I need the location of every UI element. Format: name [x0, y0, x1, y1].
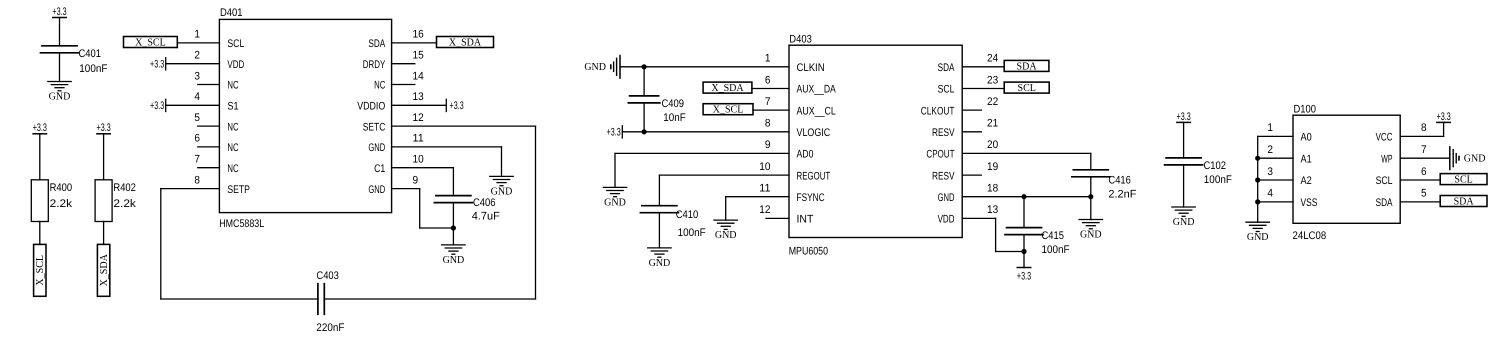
svg-text:3: 3 — [194, 70, 200, 82]
svg-text:+3.3: +3.3 — [450, 100, 464, 112]
svg-text:12: 12 — [413, 112, 424, 124]
svg-text:7: 7 — [1421, 144, 1427, 156]
svg-text:11: 11 — [759, 183, 770, 195]
svg-text:SCL: SCL — [1018, 83, 1036, 94]
svg-text:C401: C401 — [79, 48, 102, 60]
svg-text:6: 6 — [194, 133, 200, 145]
svg-text:5: 5 — [194, 112, 200, 124]
svg-text:16: 16 — [413, 29, 424, 41]
svg-text:SDA: SDA — [1376, 197, 1393, 209]
svg-text:1: 1 — [765, 53, 771, 65]
svg-text:8: 8 — [765, 118, 771, 130]
svg-text:WP: WP — [1381, 153, 1392, 165]
svg-text:GND: GND — [649, 258, 671, 269]
svg-text:VDD: VDD — [227, 59, 244, 71]
svg-text:NC: NC — [227, 80, 238, 92]
svg-text:+3.3: +3.3 — [52, 6, 66, 18]
svg-text:REGOUT: REGOUT — [797, 170, 831, 182]
svg-text:D403: D403 — [789, 33, 812, 45]
svg-text:3: 3 — [1267, 166, 1273, 178]
svg-text:13: 13 — [987, 204, 998, 216]
svg-text:X_SDA: X_SDA — [449, 37, 482, 48]
svg-text:RESV: RESV — [932, 127, 955, 139]
svg-text:5: 5 — [1421, 188, 1427, 200]
svg-text:GND: GND — [1247, 232, 1269, 243]
svg-text:23: 23 — [987, 74, 998, 86]
svg-text:7: 7 — [765, 96, 771, 108]
svg-text:GND: GND — [938, 192, 955, 204]
svg-text:11: 11 — [413, 133, 424, 145]
svg-text:NC: NC — [227, 142, 238, 154]
svg-text:SCL: SCL — [938, 84, 955, 96]
svg-text:AD0: AD0 — [797, 149, 814, 161]
svg-text:X_SDA: X_SDA — [711, 83, 744, 94]
svg-text:NC: NC — [374, 80, 385, 92]
svg-text:19: 19 — [987, 161, 998, 173]
svg-text:GND: GND — [604, 197, 626, 208]
svg-text:22: 22 — [987, 96, 998, 108]
svg-text:8: 8 — [194, 174, 200, 186]
svg-text:GND: GND — [1173, 217, 1195, 228]
svg-text:VCC: VCC — [1376, 132, 1393, 144]
svg-text:4: 4 — [1267, 188, 1273, 200]
svg-text:21: 21 — [987, 118, 998, 130]
svg-text:+3.3: +3.3 — [1177, 111, 1191, 123]
svg-text:VDD: VDD — [938, 214, 955, 226]
svg-text:GND: GND — [491, 186, 513, 197]
svg-text:MPU6050: MPU6050 — [789, 245, 828, 257]
svg-text:GND: GND — [368, 142, 385, 154]
svg-text:C410: C410 — [676, 209, 699, 221]
svg-text:SDA: SDA — [938, 62, 955, 74]
svg-text:SCL: SCL — [1376, 175, 1393, 187]
svg-text:C403: C403 — [316, 270, 339, 282]
svg-text:C416: C416 — [1108, 174, 1131, 186]
svg-text:SDA: SDA — [368, 38, 385, 50]
svg-text:VLOGIC: VLOGIC — [797, 127, 831, 139]
svg-text:24LC08: 24LC08 — [1293, 230, 1327, 242]
svg-text:X_SCL: X_SCL — [135, 37, 166, 48]
svg-text:+3.3: +3.3 — [1017, 271, 1031, 283]
svg-text:C415: C415 — [1042, 230, 1065, 242]
svg-text:GND: GND — [49, 91, 71, 102]
svg-text:GND: GND — [1080, 229, 1102, 240]
svg-text:NC: NC — [227, 121, 238, 133]
svg-text:220nF: 220nF — [316, 322, 344, 334]
svg-text:DRDY: DRDY — [363, 59, 386, 71]
svg-text:A1: A1 — [1301, 153, 1312, 165]
svg-text:14: 14 — [413, 70, 424, 82]
svg-text:A2: A2 — [1301, 175, 1312, 187]
svg-text:1: 1 — [1267, 122, 1273, 134]
svg-text:AUX__CL: AUX__CL — [797, 105, 836, 117]
svg-text:4: 4 — [194, 91, 200, 103]
svg-text:10: 10 — [759, 161, 770, 173]
svg-text:X_SCL: X_SCL — [713, 105, 744, 116]
svg-text:SETP: SETP — [227, 184, 250, 196]
svg-text:GND: GND — [584, 62, 606, 73]
svg-text:GND: GND — [715, 230, 737, 241]
svg-text:FSYNC: FSYNC — [797, 192, 825, 204]
svg-text:X_SCL: X_SCL — [35, 255, 46, 286]
svg-text:+3.3: +3.3 — [97, 122, 111, 134]
svg-text:13: 13 — [413, 91, 424, 103]
svg-text:15: 15 — [413, 50, 424, 62]
svg-text:CLKOUT: CLKOUT — [921, 105, 955, 117]
svg-text:SDA: SDA — [1017, 61, 1038, 72]
svg-text:C102: C102 — [1204, 160, 1227, 172]
svg-text:C1: C1 — [374, 163, 385, 175]
svg-text:18: 18 — [987, 183, 998, 195]
svg-text:10: 10 — [413, 154, 424, 166]
svg-text:CLKIN: CLKIN — [797, 62, 825, 74]
svg-text:7: 7 — [194, 154, 200, 166]
svg-text:GND: GND — [1464, 154, 1486, 165]
svg-text:C409: C409 — [662, 98, 685, 110]
svg-text:VSS: VSS — [1301, 197, 1318, 209]
svg-text:+3.3: +3.3 — [150, 100, 164, 112]
svg-text:GND: GND — [443, 255, 465, 266]
svg-text:100nF: 100nF — [678, 227, 706, 239]
svg-text:100nF: 100nF — [1042, 244, 1070, 256]
svg-text:R400: R400 — [50, 182, 73, 194]
svg-text:8: 8 — [1421, 122, 1427, 134]
svg-text:+3.3: +3.3 — [607, 126, 621, 138]
svg-text:2.2k: 2.2k — [50, 198, 73, 210]
svg-text:SCL: SCL — [227, 38, 244, 50]
svg-text:100nF: 100nF — [1204, 174, 1232, 186]
svg-text:A0: A0 — [1301, 132, 1312, 144]
svg-text:VDDIO: VDDIO — [357, 101, 385, 113]
svg-text:RESV: RESV — [932, 170, 955, 182]
svg-text:GND: GND — [368, 184, 385, 196]
svg-text:SETC: SETC — [363, 121, 386, 133]
svg-text:X_SDA: X_SDA — [99, 253, 110, 286]
svg-text:D401: D401 — [220, 7, 243, 19]
svg-text:S1: S1 — [227, 101, 238, 113]
svg-text:C406: C406 — [473, 197, 496, 209]
svg-text:4.7uF: 4.7uF — [472, 211, 500, 223]
svg-text:R402: R402 — [113, 182, 135, 194]
svg-text:9: 9 — [413, 174, 419, 186]
svg-text:2.2nF: 2.2nF — [1108, 188, 1136, 200]
svg-text:INT: INT — [797, 214, 814, 226]
svg-text:+3.3: +3.3 — [33, 122, 47, 134]
svg-text:+3.3: +3.3 — [1437, 111, 1451, 123]
svg-text:24: 24 — [987, 53, 998, 65]
svg-text:+3.3: +3.3 — [150, 58, 164, 70]
svg-text:HMC5883L: HMC5883L — [219, 218, 264, 230]
svg-text:20: 20 — [987, 139, 998, 151]
svg-text:CPOUT: CPOUT — [926, 149, 954, 161]
svg-text:6: 6 — [1421, 166, 1427, 178]
svg-text:2: 2 — [1267, 144, 1273, 156]
svg-text:D100: D100 — [1294, 104, 1317, 116]
svg-text:6: 6 — [765, 74, 771, 86]
svg-text:NC: NC — [227, 163, 238, 175]
svg-text:SDA: SDA — [1454, 196, 1475, 207]
svg-text:9: 9 — [765, 139, 771, 151]
svg-text:AUX__DA: AUX__DA — [797, 84, 837, 96]
svg-text:1: 1 — [194, 29, 200, 41]
svg-text:10nF: 10nF — [663, 112, 686, 124]
svg-text:2: 2 — [194, 50, 200, 62]
svg-text:12: 12 — [759, 204, 770, 216]
svg-text:2.2k: 2.2k — [113, 198, 136, 210]
svg-text:100nF: 100nF — [79, 63, 107, 75]
svg-text:SCL: SCL — [1454, 175, 1472, 186]
